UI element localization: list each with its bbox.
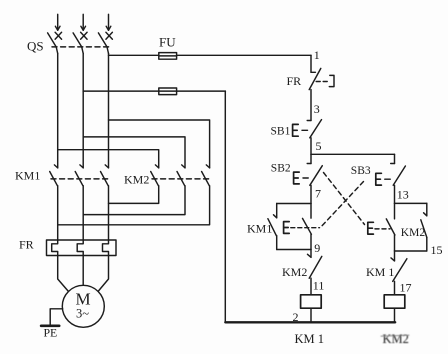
wire L3 to KM2 pole3 feed [109, 120, 210, 168]
contactor KM1 main pole 3 [101, 165, 109, 186]
pushbutton SB2 NC interlock (right branch) [368, 203, 395, 235]
FR heater element phase 2 [77, 240, 83, 256]
svg-text:13: 13 [397, 188, 409, 202]
svg-text:1: 1 [314, 48, 320, 62]
fuse FU1 [109, 53, 312, 60]
node 15 [431, 243, 443, 257]
wire KM2 pole1 crossover to phase 3 [109, 186, 159, 204]
label FU [159, 35, 176, 50]
FR heater element phase 1 [52, 240, 58, 256]
wire L1 supply arrow [55, 14, 60, 30]
label KM 1 (coil name) [295, 332, 325, 346]
wire node13-15 [394, 235, 396, 251]
wire FR to motor U [58, 256, 69, 292]
wire node5 to SB3 branch [311, 153, 395, 155]
wire node5-7 [310, 185, 312, 203]
svg-text:3~: 3~ [76, 307, 89, 321]
wire KM2 pole3 crossover to phase 1 [58, 186, 210, 225]
wire KM1 pole1 output [57, 186, 59, 240]
coil KM2 [384, 295, 405, 308]
wire KM1 pole2 output [82, 186, 84, 240]
thermal relay FR heater box [47, 240, 117, 256]
wire KM1 pole3 output [108, 186, 110, 240]
label KM1 (aux) [247, 222, 272, 236]
svg-text:11: 11 [313, 279, 325, 293]
wire coil KM2 to bottom [394, 308, 396, 322]
coil KM1 [301, 295, 322, 308]
label KM2 (coil name, faded) [381, 332, 409, 346]
fuse FU2 [83, 88, 225, 95]
svg-text:SB2: SB2 [271, 163, 291, 175]
wire node3-5 [310, 138, 312, 155]
svg-text:KM 1: KM 1 [295, 332, 325, 346]
svg-text:7: 7 [315, 187, 321, 201]
pushbutton SB3 (NO start rev) [376, 154, 406, 185]
svg-text:KM2: KM2 [124, 173, 149, 187]
contactor KM2 interlock contact (NC) [308, 250, 322, 279]
svg-text:FU: FU [159, 35, 176, 50]
contactor KM1 main pole 2 [75, 165, 83, 186]
wire node15 to KM2 aux branch [395, 250, 427, 252]
wire phase L1 vertical [57, 54, 59, 168]
label PE [44, 326, 58, 340]
contactor KM2 linkage (dashed) [152, 178, 211, 180]
wire FR to motor W [98, 256, 109, 292]
svg-text:PE: PE [44, 326, 58, 340]
wire coil KM1 to bottom [310, 308, 312, 322]
contactor KM2 main pole 3 [202, 165, 210, 186]
mechanical linkage SB3 to left interlock (dashed diagonal) [322, 182, 364, 226]
svg-text:KM2: KM2 [401, 227, 426, 239]
wire L1 to KM2 pole1 feed [58, 150, 159, 168]
wire node9-11 [310, 278, 312, 295]
contactor KM2 main pole 2 [177, 165, 185, 186]
wire L3 supply arrow [106, 14, 111, 30]
label FR (control) [287, 74, 302, 88]
node 17 [400, 281, 412, 295]
node 11 [313, 279, 325, 293]
wire L2 to KM2 pole2 feed [83, 137, 185, 168]
label QS [27, 39, 44, 54]
contactor KM1 auxiliary contact (self-hold) [268, 204, 277, 250]
node 9 [314, 241, 320, 255]
wire control feed from FU1 [310, 55, 312, 72]
wire motor to PE [50, 309, 62, 325]
label SB3 [351, 165, 371, 177]
node 1 [314, 48, 320, 62]
svg-text:5: 5 [316, 139, 322, 153]
contactor KM2 auxiliary contact (self-hold) [421, 203, 427, 251]
wire node7 to KM1 aux branch [277, 203, 311, 205]
svg-text:KM2: KM2 [383, 332, 409, 346]
wire FR to motor V [82, 256, 84, 286]
contactor KM1 main pole 1 [50, 165, 58, 186]
node 2 [293, 310, 299, 324]
svg-text:15: 15 [431, 243, 443, 257]
switch QS pole 1 [48, 32, 62, 53]
ground PE [41, 324, 59, 327]
pushbutton SB2 (NO start fwd) [294, 154, 323, 185]
label KM1 [15, 169, 40, 183]
svg-text:SB3: SB3 [351, 165, 371, 177]
switch QS pole 2 [73, 32, 87, 53]
wire phase L3 vertical [108, 54, 110, 168]
node 13 [397, 188, 409, 202]
svg-text:17: 17 [400, 281, 412, 295]
wire control return from FU2 [224, 91, 226, 322]
wire node15-17 [394, 281, 396, 294]
relay contact FR (NC, control) [309, 68, 334, 89]
svg-text:KM2: KM2 [282, 265, 307, 279]
node 3 [314, 102, 320, 116]
svg-text:FR: FR [287, 74, 302, 88]
label FR (power) [19, 238, 34, 252]
svg-text:QS: QS [27, 39, 44, 54]
svg-text:KM1: KM1 [15, 169, 40, 183]
svg-text:9: 9 [314, 241, 320, 255]
label KM 1 (interlock) [366, 265, 394, 279]
node 7 [315, 187, 321, 201]
contactor KM1 linkage (dashed) [51, 178, 110, 180]
wire phase L2 vertical [82, 54, 84, 168]
svg-text:SB1: SB1 [271, 126, 291, 138]
wire node7-9 [310, 234, 312, 249]
contactor KM2 main pole 1 [151, 165, 159, 186]
label KM2 [124, 173, 149, 187]
wire L2 supply arrow [81, 14, 86, 30]
contactor KM1 interlock contact (NC) [391, 251, 407, 281]
switch QS linkage (dashed) [52, 46, 110, 48]
svg-text:KM 1: KM 1 [366, 265, 394, 279]
svg-text:KM1: KM1 [247, 222, 272, 236]
wire control bottom rail [225, 321, 395, 323]
wire node1-3 [310, 90, 312, 121]
label KM2 (aux) [401, 227, 426, 239]
wire node13 top [394, 185, 396, 203]
pushbutton SB3 NC interlock (left branch) [284, 204, 320, 235]
wire KM2 pole2 crossover to phase 2 [83, 186, 185, 215]
switch QS pole 3 [98, 32, 112, 53]
svg-text:FR: FR [19, 238, 34, 252]
wire node9 to KM1 aux branch [277, 249, 311, 251]
svg-text:3: 3 [314, 102, 320, 116]
mechanical linkage SB2 to right interlock (dashed diagonal) [324, 173, 365, 225]
wire node13 to KM2 aux branch [395, 202, 427, 204]
pushbutton SB1 (NC stop) [293, 120, 322, 138]
motor M 3~ [62, 285, 104, 327]
label SB1 [271, 126, 291, 138]
label SB2 [271, 163, 291, 175]
label KM2 (interlock) [282, 265, 307, 279]
node 5 [316, 139, 322, 153]
FR heater element phase 3 [103, 240, 109, 256]
